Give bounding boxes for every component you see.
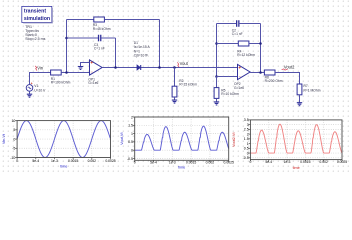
svg-text:time: time bbox=[293, 166, 300, 170]
svg-text:Vin: Vin bbox=[37, 65, 44, 70]
resistor R3 45k bbox=[67, 17, 160, 31]
node junction C3 branch bbox=[114, 66, 117, 69]
svg-text:1e-3: 1e-3 bbox=[284, 160, 291, 164]
svg-text:U=10 V: U=10 V bbox=[34, 88, 46, 92]
node junction feedback right bbox=[259, 71, 262, 74]
plot panel 3 Vout2 bbox=[232, 118, 347, 170]
svg-text:1: 1 bbox=[247, 142, 249, 146]
svg-text:5e-4: 5e-4 bbox=[265, 160, 272, 164]
svg-text:0: 0 bbox=[131, 148, 133, 152]
svg-text:-5: -5 bbox=[12, 147, 15, 151]
plot panel 2 Vout bbox=[120, 115, 234, 169]
svg-text:1: 1 bbox=[131, 132, 133, 136]
svg-text:0.0025: 0.0025 bbox=[224, 161, 234, 165]
svg-text:R7: R7 bbox=[304, 84, 308, 88]
svg-text:simulation: simulation bbox=[24, 16, 50, 22]
node junction R3 branch bbox=[158, 66, 161, 69]
svg-text:R=200 Ohm: R=200 Ohm bbox=[265, 79, 283, 83]
op-amp OP1 bbox=[88, 60, 102, 85]
node junction R4 right bbox=[259, 42, 262, 45]
wire R1 to OP1 bbox=[61, 72, 89, 74]
svg-text:Cj0=10 fF: Cj0=10 fF bbox=[134, 54, 148, 58]
op-amp OP2 bbox=[234, 64, 250, 90]
svg-text:0: 0 bbox=[134, 161, 136, 165]
wire R3 right vertical down bbox=[159, 20, 161, 68]
svg-text:Vout.Vt: Vout.Vt bbox=[120, 132, 124, 145]
svg-text:5e-4: 5e-4 bbox=[150, 161, 157, 165]
svg-text:-0.5: -0.5 bbox=[127, 157, 133, 161]
svg-text:2.5: 2.5 bbox=[244, 128, 249, 132]
svg-text:time: time bbox=[178, 166, 185, 170]
svg-text:C=1 nF: C=1 nF bbox=[232, 32, 243, 36]
svg-text:R=45 kOhm: R=45 kOhm bbox=[93, 27, 111, 31]
svg-text:0.0015: 0.0015 bbox=[300, 160, 310, 164]
resistor R6 200 Ohm bbox=[264, 70, 282, 83]
wire C3 right vertical down bbox=[115, 38, 117, 68]
svg-text:0.002: 0.002 bbox=[206, 161, 215, 165]
node junction OP2 minus input bbox=[215, 75, 218, 78]
ground at OP1 noninverting input bbox=[81, 63, 90, 67]
TR1 properties bbox=[25, 25, 45, 41]
transient simulation block bbox=[22, 6, 53, 23]
svg-text:1.5: 1.5 bbox=[128, 124, 133, 128]
svg-text:V1: V1 bbox=[34, 84, 38, 88]
svg-text:C=1 nF: C=1 nF bbox=[94, 47, 105, 51]
ground below R5 bbox=[214, 102, 219, 105]
diode D1 bbox=[134, 41, 151, 70]
svg-text:0: 0 bbox=[13, 137, 15, 141]
resistor R5 10k bbox=[214, 77, 239, 102]
svg-text:Vout2: Vout2 bbox=[284, 65, 295, 70]
node Vin label bbox=[35, 65, 44, 70]
svg-text:0.0025: 0.0025 bbox=[105, 159, 115, 163]
voltage source V1 bbox=[26, 82, 46, 92]
ground below R7 bbox=[297, 103, 302, 106]
resistor R1 100k bbox=[51, 70, 71, 85]
node junction input bbox=[65, 71, 68, 74]
svg-text:5: 5 bbox=[13, 128, 15, 132]
resistor R4 12k bbox=[217, 41, 261, 57]
wire OP1 output to OP2 input bbox=[102, 67, 237, 69]
grid background bbox=[0, 0, 352, 174]
ground below V1 bbox=[29, 91, 31, 94]
node Vout label bbox=[177, 61, 188, 67]
svg-text:0.0015: 0.0015 bbox=[68, 159, 78, 163]
capacitor C2 1nF bbox=[217, 20, 261, 36]
ground below R2 bbox=[172, 100, 177, 103]
node Vout2 label bbox=[282, 65, 295, 70]
capacitor C3 1nF bbox=[67, 35, 116, 51]
svg-text:-10: -10 bbox=[10, 156, 15, 160]
wire OP2 output bbox=[250, 72, 264, 74]
svg-text:0.0025: 0.0025 bbox=[337, 160, 347, 164]
svg-text:Stop=2.5 ms: Stop=2.5 ms bbox=[25, 37, 45, 41]
svg-text:1e-3: 1e-3 bbox=[51, 159, 58, 163]
svg-text:transient: transient bbox=[24, 9, 46, 15]
svg-text:R=12 kOhm: R=12 kOhm bbox=[237, 53, 255, 57]
svg-text:0.0015: 0.0015 bbox=[186, 161, 196, 165]
svg-text:R=1 MOhm: R=1 MOhm bbox=[304, 89, 321, 93]
svg-text:1.5: 1.5 bbox=[244, 137, 249, 141]
svg-text:1e-3: 1e-3 bbox=[169, 161, 176, 165]
wire V1 to Vin line bbox=[30, 73, 51, 85]
svg-text:0.5: 0.5 bbox=[128, 140, 133, 144]
svg-text:-0.5: -0.5 bbox=[243, 156, 249, 160]
svg-text:0: 0 bbox=[249, 160, 251, 164]
svg-text:0.002: 0.002 bbox=[88, 159, 97, 163]
node junction R4 left bbox=[215, 42, 218, 45]
svg-text:R=10 kOhm: R=10 kOhm bbox=[221, 92, 239, 96]
svg-text:10: 10 bbox=[11, 119, 15, 123]
svg-text:3.5: 3.5 bbox=[244, 118, 249, 122]
plot panel 1 Vin bbox=[2, 119, 116, 169]
svg-text:0.5: 0.5 bbox=[244, 147, 249, 151]
svg-text:time: time bbox=[60, 165, 67, 169]
svg-text:5e-4: 5e-4 bbox=[32, 159, 39, 163]
wire OP2 bottom input bbox=[217, 76, 239, 78]
resistor R7 1M bbox=[297, 84, 321, 103]
wire feedback left vertical bbox=[66, 20, 68, 73]
node junction R2 branch bbox=[173, 66, 176, 69]
svg-text:G=1e6: G=1e6 bbox=[88, 81, 98, 85]
svg-text:R=100 kOhm: R=100 kOhm bbox=[51, 81, 71, 85]
svg-text:R=15 kOhm: R=15 kOhm bbox=[179, 83, 197, 87]
node junction C3 left bbox=[65, 37, 68, 40]
svg-text:0.002: 0.002 bbox=[319, 160, 328, 164]
wire OP2 left feedback vertical bbox=[216, 24, 218, 77]
svg-text:0: 0 bbox=[247, 151, 249, 155]
wire R6 to R7 corner bbox=[275, 73, 300, 85]
svg-text:Vout: Vout bbox=[180, 61, 189, 66]
resistor R2 15k bbox=[172, 68, 197, 101]
svg-text:2: 2 bbox=[131, 115, 133, 119]
svg-text:0: 0 bbox=[16, 159, 18, 163]
svg-text:2: 2 bbox=[247, 132, 249, 136]
svg-text:G=1e6: G=1e6 bbox=[234, 86, 244, 90]
svg-text:3: 3 bbox=[247, 123, 249, 127]
svg-text:Vout2.Vt: Vout2.Vt bbox=[232, 132, 236, 147]
svg-text:Vin.Vt: Vin.Vt bbox=[2, 133, 6, 144]
wire OP2 right feedback vertical bbox=[260, 24, 262, 73]
